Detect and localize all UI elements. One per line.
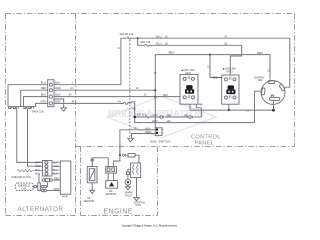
resistor R1 bbox=[128, 154, 135, 157]
sub-field coil 2 dashed box bbox=[16, 183, 33, 191]
ground symbol control panel bbox=[128, 138, 134, 142]
receptacle top slot bbox=[268, 81, 274, 84]
wire RED 22 row to control panel bbox=[54, 89, 155, 91]
svg-text:BLU: BLU bbox=[156, 42, 161, 46]
svg-text:ENGINE: ENGINE bbox=[104, 208, 133, 215]
watermark Briggs & Stratton diamond bbox=[107, 96, 216, 138]
engine switch connector bbox=[155, 128, 162, 136]
svg-text:44B: 44B bbox=[166, 114, 171, 117]
twist-lock receptacle 120/240V 30A bbox=[261, 81, 285, 105]
circuit breaker CB2 20A bbox=[145, 44, 156, 46]
svg-text:RED: RED bbox=[55, 86, 61, 90]
svg-text:Copyright © Briggs & Stratton,: Copyright © Briggs & Stratton, LLC. All … bbox=[122, 223, 178, 227]
wire 1A row bbox=[138, 38, 290, 87]
svg-text:RED: RED bbox=[54, 177, 59, 180]
svg-text:BLU: BLU bbox=[53, 169, 58, 172]
oil sensor 1 ground bbox=[90, 183, 95, 194]
oil sensor 2 body bbox=[106, 181, 118, 189]
sub-field coil 1 zigzag bbox=[18, 169, 43, 171]
alternator box border bbox=[6, 14, 295, 216]
GFCI receptacle 2 body bbox=[222, 75, 239, 104]
svg-text:WHT: WHT bbox=[53, 161, 59, 164]
connector pair P1 bbox=[160, 116, 163, 119]
svg-text:GFCI: GFCI bbox=[185, 71, 191, 75]
CN2 wire labels bbox=[35, 161, 60, 190]
svg-text:ORN: ORN bbox=[145, 130, 151, 134]
svg-text:BLK: BLK bbox=[163, 93, 168, 97]
svg-text:15A C.B.: 15A C.B. bbox=[137, 112, 148, 116]
svg-text:COIL: COIL bbox=[21, 188, 27, 190]
svg-text:BLK: BLK bbox=[53, 173, 58, 176]
svg-text:20A 2P C.B.: 20A 2P C.B. bbox=[120, 32, 135, 36]
oil sensor 1 body bbox=[87, 167, 97, 183]
ground symbol at CN1 bbox=[61, 108, 66, 111]
svg-text:BLK: BLK bbox=[55, 93, 60, 97]
node J4 bbox=[154, 96, 156, 98]
svg-text:COIL: COIL bbox=[135, 204, 141, 207]
node J7 bbox=[119, 154, 121, 156]
wire BLK to GFCI 1 bbox=[155, 96, 180, 98]
svg-text:44B: 44B bbox=[184, 114, 189, 117]
receptacle left slot bbox=[261, 88, 265, 95]
connector CN1 body bbox=[48, 80, 54, 107]
brush bar bbox=[38, 183, 41, 191]
ignition coil windings bbox=[132, 165, 134, 175]
svg-text:SUB-FIELD COIL: SUB-FIELD COIL bbox=[11, 175, 32, 179]
ground dashed wire bbox=[129, 40, 131, 138]
engine switch wire 16 bbox=[120, 130, 155, 155]
GFCI receptacle 1 body bbox=[180, 75, 198, 105]
svg-text:RED: RED bbox=[212, 75, 218, 79]
wire BLU row from coil bbox=[8, 85, 48, 107]
circuit breaker CB1 20A 2P bbox=[127, 37, 138, 39]
wire 22 vertical bbox=[154, 55, 156, 128]
diode D1 bbox=[122, 154, 128, 156]
ignition coil ground bbox=[134, 178, 139, 201]
sub-field circuit row bbox=[33, 186, 34, 188]
svg-text:SENSOR: SENSOR bbox=[105, 193, 116, 196]
svg-text:WHT: WHT bbox=[54, 188, 60, 191]
wire GRY 44 row to breaker bbox=[54, 102, 124, 104]
node J2 bbox=[209, 54, 211, 56]
wire RED row from coil bbox=[21, 90, 48, 106]
wire main coil tap 2 down bbox=[28, 109, 43, 167]
GFCI 2 screws bbox=[225, 78, 228, 81]
circuit breaker CB3 44 row bbox=[124, 102, 135, 116]
svg-text:WHT: WHT bbox=[35, 161, 41, 164]
svg-text:30A: 30A bbox=[258, 79, 263, 82]
svg-text:RED: RED bbox=[41, 86, 47, 90]
svg-text:GRN: GRN bbox=[53, 165, 59, 168]
svg-text:GRY: GRY bbox=[55, 99, 61, 103]
svg-text:ENG. SWITCH: ENG. SWITCH bbox=[150, 140, 170, 144]
svg-text:SENSOR: SENSOR bbox=[83, 200, 94, 203]
svg-text:AVR: AVR bbox=[62, 194, 68, 198]
svg-text:GRY: GRY bbox=[41, 99, 47, 103]
wire 11 riser to main breaker bbox=[121, 38, 127, 84]
wire 15A breaker row bbox=[136, 116, 146, 118]
svg-text:1B: 1B bbox=[165, 43, 168, 46]
neutral bus wire bbox=[190, 109, 274, 111]
main coil comb 2 bbox=[23, 107, 35, 109]
svg-text:20A C.B.: 20A C.B. bbox=[140, 40, 151, 44]
node J1 bbox=[137, 37, 139, 39]
svg-text:44A: 44A bbox=[166, 120, 171, 123]
node pin 44B bbox=[134, 116, 136, 119]
oil sensor 2 connector bbox=[106, 167, 117, 174]
svg-text:BLU: BLU bbox=[35, 169, 40, 172]
wire 44A row to receptacle ground bbox=[135, 91, 262, 122]
engine switch wire ORN bbox=[132, 134, 156, 139]
svg-text:BLK: BLK bbox=[41, 93, 46, 97]
svg-text:1B: 1B bbox=[224, 43, 227, 46]
svg-text:GFCI: GFCI bbox=[226, 69, 232, 73]
GFCI 1 screws bbox=[183, 77, 186, 80]
GFCI 1 outlet face bbox=[186, 85, 192, 89]
svg-text:BLK: BLK bbox=[145, 126, 150, 130]
connector pair P2 bbox=[189, 116, 192, 119]
svg-text:44B: 44B bbox=[198, 103, 203, 106]
WHT row to AVR bbox=[39, 190, 41, 192]
svg-text:BLU: BLU bbox=[156, 34, 161, 38]
svg-text:RED: RED bbox=[257, 51, 263, 55]
GFCI 1 neutral lead bbox=[189, 104, 191, 110]
main coil comb 1 bbox=[8, 107, 19, 109]
svg-text:RED: RED bbox=[169, 51, 175, 55]
wire BLU 1 row to control panel bbox=[54, 84, 121, 86]
engine interior: entry wire bbox=[119, 146, 121, 155]
svg-text:GRY: GRY bbox=[152, 113, 158, 117]
AVR body bbox=[60, 161, 71, 194]
wire BLK 33 row to control panel bbox=[54, 96, 155, 98]
node J5 bbox=[228, 109, 230, 111]
svg-text:1A: 1A bbox=[224, 36, 227, 39]
circuit breaker CB4 15A bbox=[146, 116, 161, 118]
svg-text:GRN: GRN bbox=[35, 165, 41, 168]
svg-text:ALTERNATOR: ALTERNATOR bbox=[18, 206, 64, 213]
svg-text:CONTROL: CONTROL bbox=[191, 134, 221, 140]
svg-text:1A: 1A bbox=[165, 36, 168, 39]
svg-text:BLK: BLK bbox=[35, 173, 40, 176]
oil sensor branch bbox=[92, 155, 120, 166]
GFCI 2 neutral lead bbox=[228, 104, 230, 110]
spark plug bbox=[125, 179, 131, 185]
CN2 to AVR wires bbox=[52, 163, 60, 174]
ground stub at connector CN1 bbox=[54, 99, 64, 108]
svg-text:44B: 44B bbox=[131, 108, 136, 111]
connector circle bbox=[91, 159, 93, 161]
spark plug cap bbox=[126, 172, 129, 175]
spark plug ground bbox=[125, 185, 130, 190]
RED row to AVR bbox=[41, 179, 44, 181]
node J6 bbox=[272, 109, 275, 112]
wire 1B row bbox=[156, 45, 242, 75]
svg-text:SUB-FIELD: SUB-FIELD bbox=[18, 186, 30, 188]
svg-text:PLUG: PLUG bbox=[125, 194, 132, 197]
svg-text:GRY: GRY bbox=[152, 119, 158, 123]
receptacle right slot bbox=[279, 84, 285, 92]
svg-text:MAIN COIL: MAIN COIL bbox=[32, 110, 45, 113]
node J3 bbox=[154, 89, 156, 91]
svg-text:BLU: BLU bbox=[55, 81, 60, 85]
wire 22 drop to GFCI 2 bbox=[210, 55, 222, 78]
ignition coil body bbox=[131, 163, 141, 178]
wire receptacle neutral bbox=[273, 101, 275, 110]
receptacle bottom slot bbox=[270, 95, 280, 100]
spark plug wire bbox=[128, 169, 131, 172]
wire to breaker CB2 bbox=[138, 38, 145, 45]
main coil link bbox=[19, 106, 23, 108]
wire main coil tap 1 down bbox=[17, 109, 43, 163]
oil sensor 2 wires bbox=[108, 173, 113, 181]
wire to ignition coil bbox=[135, 155, 139, 163]
wire 44B to GFCI 1 bbox=[165, 116, 189, 118]
wire GRY row from coil bbox=[36, 103, 48, 106]
alternator connector CN2 bbox=[43, 161, 53, 177]
svg-text:PANEL: PANEL bbox=[195, 141, 215, 147]
GFCI 2 outlet face bbox=[228, 85, 234, 89]
svg-text:BLU: BLU bbox=[41, 81, 46, 85]
wire BLK row from coil bbox=[24, 97, 48, 107]
bar to CN2 row4 bbox=[38, 174, 40, 183]
wire RED top row bbox=[155, 55, 270, 80]
connector CN1 pins bbox=[49, 83, 52, 86]
